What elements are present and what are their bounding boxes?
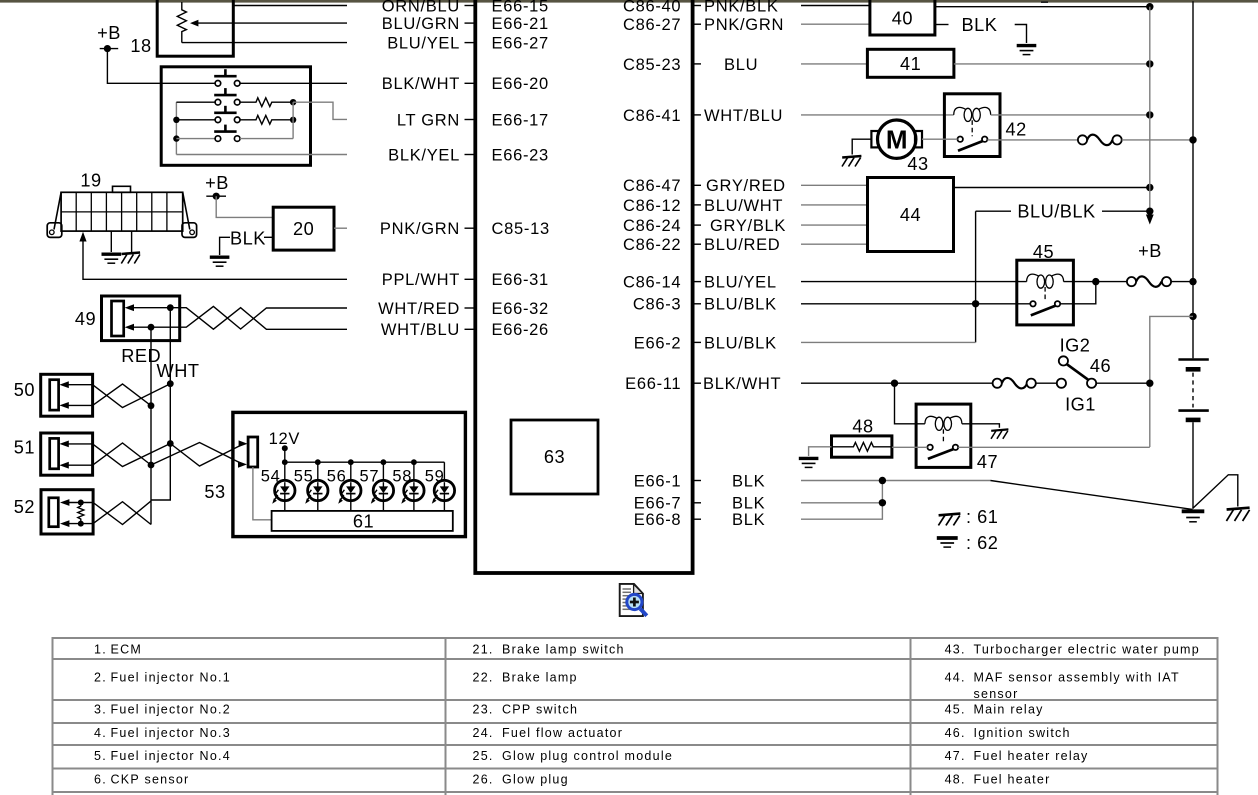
ground 61 (relay 47 coil) [991, 429, 1008, 438]
motor 43 right brush [915, 131, 922, 147]
switch 46 IG2 contact [1059, 356, 1068, 365]
cropped artifact stub near top right [1041, 1, 1048, 3]
+B tap bar [100, 48, 119, 50]
switch S2 row2 contacts [215, 99, 221, 105]
pin C86-12 tick [693, 204, 701, 206]
pin E66-8 tick [693, 518, 701, 520]
WHT bus vertical [151, 308, 170, 500]
wire E66-2 BLU/BLK to branch [801, 341, 976, 343]
svg-text:21.: 21. [473, 642, 494, 656]
twisted pair 49 to ECM line2 [180, 306, 347, 329]
svg-text:BLK/WHT: BLK/WHT [703, 375, 781, 393]
svg-text:Brake lamp switch: Brake lamp switch [502, 642, 625, 656]
+B rail arrow [1146, 215, 1154, 225]
wire BLU/BLK (C86-3 branch) vertical [975, 211, 977, 342]
svg-text:22.: 22. [473, 671, 494, 685]
svg-text:41: 41 [900, 54, 921, 74]
wire BLU to box 41 [801, 63, 867, 65]
junction dot RED line (in 49) [148, 324, 155, 331]
pin C86-3 tick [693, 303, 701, 305]
connector 19 grid verticals [76, 192, 167, 231]
wire E66-7 BLK [801, 502, 882, 504]
pin C86-27 tick [693, 23, 701, 25]
wire rail to row3 contact [176, 119, 215, 121]
wire rail to row2 contact [176, 101, 215, 103]
magnifier lens [627, 594, 642, 609]
svg-text:44.: 44. [945, 671, 966, 685]
svg-text:BLU/YEL: BLU/YEL [704, 274, 777, 292]
svg-text:E66-32: E66-32 [492, 300, 549, 318]
wire relay 47 coil to ground [962, 424, 1000, 428]
svg-text:BLU/BLK: BLU/BLK [1017, 202, 1095, 222]
block 18 box [161, 67, 310, 166]
svg-text:C86-12: C86-12 [623, 197, 681, 215]
svg-text:47.: 47. [945, 749, 966, 763]
connector 19 right slant side [183, 192, 190, 229]
twisted pair 50 line2 [93, 384, 151, 406]
top crop border band [0, 0, 1258, 3]
svg-text:48.: 48. [945, 772, 966, 786]
pin C86-22 tick [693, 243, 701, 245]
svg-text:BLK/YEL: BLK/YEL [388, 146, 460, 164]
left rail of block 18 [175, 102, 177, 154]
pin E66-27 tick [465, 42, 474, 44]
wire battery ground to chassis ground [1193, 475, 1238, 509]
element bar inside 50 [50, 380, 59, 410]
svg-text:IG2: IG2 [1060, 335, 1091, 355]
pin C86-41 tick [693, 114, 701, 116]
pin E66-17 tick [465, 119, 474, 121]
relay 47 dashed link [942, 429, 944, 444]
junction dot main bus (42) [1189, 136, 1196, 143]
motor 43 body [878, 120, 916, 158]
arrow into 50 bottom [59, 402, 68, 409]
twisted pair bus to 53 line2 [151, 443, 243, 466]
glow indicator LED 58 [401, 459, 424, 511]
svg-text:Glow plug: Glow plug [502, 772, 569, 786]
ground 62 (box 40 BLK) [1017, 46, 1037, 55]
wire box 41 to +B rail [954, 63, 1150, 65]
pin E66-23 tick [465, 154, 474, 156]
arrow into 50 top [59, 381, 68, 388]
svg-text:61: 61 [353, 512, 374, 532]
wire BLU/BLK label row right segment [1102, 210, 1150, 212]
svg-text:55: 55 [294, 468, 314, 486]
svg-text:Brake lamp: Brake lamp [502, 671, 578, 685]
table column line x=1217.4 [1217, 637, 1219, 795]
table row line y=792.3 [52, 791, 1217, 793]
twisted pair 49 to ECM line1 [180, 308, 347, 330]
svg-text:46: 46 [1090, 356, 1111, 376]
wire +B to box 20 [216, 196, 273, 217]
svg-text:WHT: WHT [157, 361, 200, 381]
relay 42 box [944, 94, 1000, 157]
junction dot row2 right [290, 99, 296, 105]
svg-text:C85-23: C85-23 [623, 56, 681, 74]
RED bus vertical [150, 327, 152, 524]
box 52 [41, 490, 93, 534]
svg-text:51: 51 [14, 437, 35, 457]
12V terminal dot [282, 445, 288, 451]
legend ground 62 symbol [937, 538, 958, 547]
connector 19 right flange [182, 223, 197, 238]
svg-text:BLU/YEL: BLU/YEL [387, 35, 460, 53]
junction dot +B rail (42 coil) [1146, 111, 1153, 118]
svg-text:20: 20 [293, 219, 314, 239]
svg-text:C86-24: C86-24 [623, 217, 681, 235]
legend ground 61 symbol [938, 514, 960, 526]
relay 47 coil [925, 416, 962, 430]
wire box 40 top to +B rail [935, 6, 1150, 8]
svg-text:6.: 6. [94, 772, 107, 786]
junction dot BLK (E66-1) [879, 477, 886, 484]
junction dot BLK (E66-7) [879, 499, 886, 506]
pin C85-23 tick [693, 63, 701, 65]
connector 19 body [61, 192, 183, 231]
arrow into 49 bottom [125, 324, 134, 331]
svg-text:E66-15: E66-15 [492, 0, 549, 15]
wire PNK/BLK to box 40 [801, 5, 870, 7]
junction dot IG rail [1146, 380, 1153, 387]
wire connector 19 to ground 62 [110, 231, 112, 252]
table column line x=445.5 [445, 637, 447, 795]
svg-text:E66-17: E66-17 [492, 111, 549, 129]
svg-text:ECM: ECM [111, 642, 143, 656]
svg-text:E66-31: E66-31 [492, 271, 549, 289]
svg-text:: 61: : 61 [966, 507, 998, 527]
ground 62 below BLK (box 20) [210, 257, 230, 266]
svg-text:43.: 43. [945, 642, 966, 656]
motor 43 ground wire [852, 139, 871, 154]
box 41 [867, 49, 954, 77]
svg-text:45.: 45. [945, 703, 966, 717]
svg-text:1.: 1. [94, 642, 107, 656]
svg-text:BLK: BLK [230, 228, 266, 248]
pin E66-15 tick [465, 5, 474, 7]
switch S1 row1 contacts [215, 81, 221, 87]
relay 42 switch blade [958, 141, 983, 151]
svg-text:53: 53 [204, 482, 225, 502]
switch 46 right contact [1087, 379, 1096, 388]
svg-text:BLK: BLK [732, 472, 765, 490]
12V feed wire [284, 448, 286, 462]
wire BLU/YEL to relay 45 coil [801, 281, 1027, 283]
wire switch 46 to IG rail [1096, 382, 1150, 384]
twisted pair 52 line1 [93, 501, 151, 525]
wire wiper to BLU/GRN label [197, 22, 347, 24]
svg-text:BLU/BLK: BLU/BLK [704, 296, 777, 314]
box 49 [102, 296, 180, 341]
svg-text:BLU/RED: BLU/RED [704, 236, 780, 254]
box 53 [233, 412, 466, 536]
fuse (water pump circuit) [1078, 135, 1122, 146]
pin E66-21 tick [465, 22, 474, 24]
wire fuse to switch 46 [1036, 382, 1057, 384]
switch S3 row3 contacts [215, 117, 221, 123]
junction dot +B rail (44) [1146, 184, 1153, 191]
resistor (potentiometer track) [177, 2, 186, 43]
wire BLU/BLK to relay 45 switch [801, 303, 1031, 305]
relay 45 switch contacts [1030, 301, 1035, 306]
svg-text:Fuel heater: Fuel heater [974, 772, 1051, 786]
pin C86-24 tick [693, 224, 701, 226]
junction dot RED at 51 [148, 462, 155, 469]
svg-text:M: M [886, 125, 908, 155]
svg-text:LT GRN: LT GRN [397, 111, 460, 129]
svg-text:E66-8: E66-8 [634, 511, 682, 529]
wire ORN/BLU from pot box to label [234, 5, 347, 7]
wire GRY/BLK to box 44 [801, 224, 868, 226]
svg-text:PPL/WHT: PPL/WHT [382, 271, 460, 289]
wire branch to relay 47 coil [895, 383, 925, 424]
twisted pair bus to 53 line1 [170, 444, 244, 467]
wire PNK/GRN to box 40 [801, 23, 870, 25]
svg-text:58: 58 [392, 468, 412, 486]
ground 62 (heater 48) [799, 458, 819, 467]
fuel heater 48 box [832, 436, 892, 457]
junction dot +B rail (BLU/BLK) [1146, 208, 1153, 215]
junction dot WHT at 51 [167, 440, 174, 447]
rail junction dot row4 [173, 135, 179, 141]
svg-text:12V: 12V [269, 430, 300, 448]
svg-text:54: 54 [261, 468, 281, 486]
svg-text:Fuel flow actuator: Fuel flow actuator [502, 726, 623, 740]
junction dot RED at 50 [148, 402, 155, 409]
wire battery to ground [1192, 422, 1194, 508]
svg-text:C86-14: C86-14 [623, 274, 681, 292]
pin E66-1 tick [693, 480, 701, 482]
connector 19 left flange [47, 223, 62, 238]
relay 45 box [1017, 260, 1074, 325]
wire LT GRN from rail out of box with jog [293, 102, 347, 119]
svg-text:Main relay: Main relay [974, 703, 1044, 717]
svg-text:E66-21: E66-21 [492, 15, 549, 33]
switch 46 left contact [1057, 379, 1066, 388]
svg-text:C86-3: C86-3 [633, 296, 681, 314]
ground 61 (motor 43) [842, 156, 861, 167]
twisted pair 51 line1 [93, 444, 171, 467]
svg-text:PNK/GRN: PNK/GRN [704, 16, 784, 34]
svg-text:48: 48 [852, 416, 873, 436]
wire BLU/RED to box 44 [801, 243, 868, 245]
ground 61 (chassis) under connector 19 [121, 253, 140, 264]
switch S3 actuator T-bar [214, 112, 236, 115]
battery B1 [1178, 360, 1208, 420]
junction dot WHT at 50 [167, 380, 174, 387]
svg-text:GRY/RED: GRY/RED [706, 177, 786, 195]
svg-text:BLK/WHT: BLK/WHT [382, 75, 460, 93]
table row line y=768.5 [52, 768, 1217, 770]
switch S4 row4 contacts [215, 136, 221, 142]
svg-text:E66-26: E66-26 [492, 321, 549, 339]
arrow into 53 connector bottom [238, 461, 247, 468]
pin C86-40 tick [693, 5, 701, 7]
junction dot 52 top [78, 500, 84, 506]
table row line y=722.8 [52, 722, 1217, 724]
resistor R-row2 [240, 98, 293, 107]
ground 62 (battery, large) [1182, 511, 1205, 522]
box 50 [41, 374, 93, 416]
box 51 [41, 433, 93, 475]
svg-text:BLU/GRN: BLU/GRN [382, 15, 460, 33]
svg-text:19: 19 [80, 171, 101, 191]
junction dot row3 right [290, 117, 296, 123]
svg-text:Ignition switch: Ignition switch [974, 726, 1071, 740]
pin E66-32 tick [465, 307, 474, 309]
svg-text:sensor: sensor [974, 687, 1019, 701]
wire PNK/GRN box20 to ECM label [334, 227, 347, 229]
svg-text:2.: 2. [94, 671, 107, 685]
main +B bus vertical [1192, 1, 1194, 358]
+B junction dot [213, 193, 220, 200]
wire row4 to right rail [240, 138, 293, 140]
pin E66-31 tick [465, 278, 474, 280]
box 40 (cropped at top) [870, 0, 935, 35]
wire fuse to main bus [1171, 281, 1193, 283]
resistor inside 48 [832, 442, 892, 451]
svg-text:E66-20: E66-20 [492, 75, 549, 93]
junction dot +B rail (41) [1146, 60, 1153, 67]
svg-text:BLK: BLK [962, 15, 998, 35]
svg-text:Fuel injector No.3: Fuel injector No.3 [111, 726, 231, 740]
svg-text:4.: 4. [94, 726, 107, 740]
svg-text:3.: 3. [94, 703, 107, 717]
document sheet [620, 584, 643, 616]
svg-text:WHT/RED: WHT/RED [378, 300, 460, 318]
pin E66-11 tick [693, 382, 701, 384]
junction dot main bus (IG branch) [1189, 313, 1196, 320]
svg-text:+B: +B [1138, 241, 1162, 261]
wire WHT/BLU to relay 42 coil [801, 114, 954, 116]
svg-text:56: 56 [327, 468, 347, 486]
wiper arrow [190, 20, 198, 27]
table row line y=745.2 [52, 744, 1217, 746]
rail junction dot row3 [173, 117, 179, 123]
box 44 [868, 178, 954, 252]
svg-text:CKP sensor: CKP sensor [111, 772, 190, 786]
box 63 (inside ECM) [511, 420, 598, 494]
wire heater 48 to relay 47 switch [892, 446, 928, 448]
svg-text:BLU: BLU [724, 56, 758, 74]
svg-text:IG1: IG1 [1065, 394, 1096, 414]
svg-text:PNK/BLK: PNK/BLK [704, 0, 779, 15]
box 61 (inside 53) [272, 511, 453, 531]
svg-text:52: 52 [14, 497, 35, 517]
svg-text:E66-23: E66-23 [492, 146, 549, 164]
LED supply bus in 53 [285, 461, 445, 463]
wire GRY/RED to box 44 [801, 184, 868, 186]
connector 19 top tab [113, 186, 131, 192]
relay 47 switch contacts [927, 445, 932, 450]
wire BLK to ground [1015, 25, 1027, 44]
svg-text:Fuel injector No.1: Fuel injector No.1 [111, 671, 231, 685]
svg-text:BLK: BLK [732, 511, 765, 529]
wire E66-1 BLK [801, 480, 991, 482]
wire pot bottom to BLU/YEL label [182, 42, 347, 44]
fuse (main relay circuit) [1127, 276, 1171, 287]
wire relay 45 coil out [1064, 281, 1127, 283]
svg-text:GRY/BLK: GRY/BLK [710, 217, 786, 235]
table row line y=637.8 [52, 637, 1217, 639]
arrow into connector 19 (PPL/WHT signal) [79, 232, 86, 242]
svg-text:RED: RED [121, 346, 161, 366]
wire bus to IG rail [1150, 316, 1193, 447]
svg-text:Fuel heater relay: Fuel heater relay [974, 749, 1089, 763]
junction dot C86-3 branch [972, 300, 979, 307]
pin E66-2 tick [693, 341, 701, 343]
wire BLK/WHT E66-11 to fuse [801, 382, 993, 384]
pin E66-20 tick [465, 82, 474, 84]
svg-text:PNK/GRN: PNK/GRN [380, 220, 460, 238]
switch 46 blade [1067, 364, 1089, 380]
relay 45 switch blade [1031, 306, 1056, 316]
glow indicator LED 54 [272, 459, 295, 511]
wire relay 42 coil to +B rail [991, 114, 1150, 116]
relay 45 coil [1027, 274, 1064, 288]
wire box 20 BLK tick [264, 236, 273, 238]
svg-text:47: 47 [977, 452, 998, 472]
switch S4 actuator T-bar [214, 130, 236, 133]
+B junction dot [104, 45, 111, 52]
wire +B down and right into block 18 [107, 49, 215, 84]
+B rail vertical (right) [1149, 7, 1151, 214]
wire relay 47 switch to IG rail [958, 446, 1150, 448]
svg-text:MAF sensor assembly with IAT: MAF sensor assembly with IAT [974, 671, 1180, 685]
connector bar in 53 [248, 437, 258, 467]
switch S1 actuator T-bar [214, 75, 236, 78]
svg-text:C86-40: C86-40 [623, 0, 681, 15]
wire BLU/BLK label row left segment [976, 210, 1011, 212]
arrow into 49 top [125, 304, 134, 311]
twisted pair 52 line2 [93, 502, 151, 525]
junction dot +B rail top [1146, 3, 1153, 10]
plus sign [630, 601, 639, 604]
svg-text:C85-13: C85-13 [492, 220, 550, 238]
table row line y=700 [52, 699, 1217, 701]
wire row1 to BLK/WHT label [240, 82, 347, 84]
wire relay 45 switch to junction [1060, 282, 1096, 304]
table row line y=659 [52, 658, 1217, 660]
svg-text:+B: +B [205, 173, 229, 193]
relay 47 switch blade [928, 449, 954, 459]
wire BLK/YEL from rail out of box [176, 154, 347, 156]
pin C86-47 tick [693, 184, 701, 186]
svg-text:ORN/BLU: ORN/BLU [382, 0, 460, 15]
arrow into 52 top [60, 499, 69, 506]
svg-text:50: 50 [14, 380, 35, 400]
glow indicator LED 57 [371, 459, 394, 511]
wire heater 48 to ground [809, 447, 832, 456]
arrow into 51 bottom [59, 462, 68, 469]
fuse (ignition circuit) [993, 378, 1036, 389]
wire BLK to ground [220, 237, 230, 255]
ECM U1 box [475, 0, 692, 573]
resistor inside 52 [78, 503, 84, 524]
svg-text:C86-41: C86-41 [623, 107, 681, 125]
svg-text:46.: 46. [945, 726, 966, 740]
relay 47 box [916, 404, 971, 467]
glow indicator LED 56 [338, 459, 361, 511]
pin C86-14 tick [693, 281, 701, 283]
arrow into 52 bottom [60, 520, 69, 527]
arrow into 53 connector top [239, 440, 248, 447]
table column line x=910.6 [910, 637, 912, 795]
svg-text:+B: +B [97, 23, 121, 43]
svg-text:18: 18 [130, 36, 151, 56]
junction dot E66-11 branch [891, 380, 898, 387]
glow indicator LED 59 [432, 462, 455, 511]
ground 62 under connector 19 [102, 254, 122, 263]
